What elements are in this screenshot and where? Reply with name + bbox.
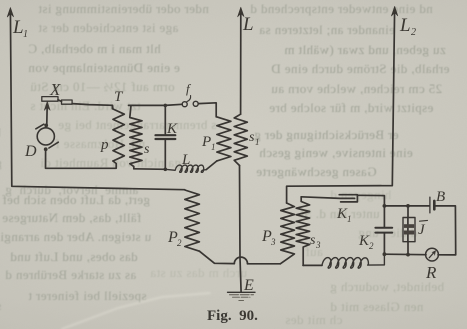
svg-text:2: 2 (177, 238, 182, 248)
detector J lead top (407, 206, 409, 218)
svg-text:E: E (243, 277, 254, 294)
node B junction dot (164, 168, 168, 172)
svg-text:J: J (418, 222, 426, 238)
label f descender tail (187, 96, 191, 102)
antenna L middle arrowhead (238, 7, 244, 17)
wire secondary bottom to node B (134, 168, 166, 171)
antenna lead L (middle) wire (240, 11, 242, 114)
detector J wire through tube (407, 218, 409, 242)
coupling coil (bottom right) (322, 254, 384, 268)
galvanometer R needle (429, 252, 434, 258)
arrow from dynamo to brush X (46, 105, 48, 125)
wire hop to P3 and S3 bottoms (248, 263, 281, 265)
detector J filings band lower (404, 231, 414, 235)
capacitor K2 plates (375, 227, 392, 229)
capacitor K1 outer plate bracket (339, 195, 357, 202)
paper crease bottom-left (62, 293, 210, 329)
wire X bars link (58, 100, 62, 102)
wire dynamo bottom to transformer primary (46, 150, 117, 168)
wire X to transformer (72, 104, 112, 109)
svg-text:1: 1 (211, 142, 216, 152)
battery B short plate (433, 201, 436, 209)
transformer T primary winding p (112, 105, 124, 161)
antenna L1 arrowhead (7, 8, 13, 18)
faint marks at left edge (0, 125, 1, 141)
node F junction dot (J bottom) (406, 253, 410, 257)
switch F contact circles (182, 102, 187, 107)
svg-text:p: p (100, 137, 109, 153)
resistor P1 (217, 117, 231, 161)
antenna lead L1 wire (10, 11, 184, 190)
dynamo D circle (37, 128, 54, 145)
detector J lead bottom (407, 242, 409, 255)
wire S3 top to capacitor K1 (301, 197, 354, 199)
svg-text:L: L (181, 152, 190, 168)
capacitor K2 lead top (383, 206, 385, 227)
svg-text:3: 3 (270, 237, 276, 247)
svg-text:L: L (12, 17, 24, 38)
svg-text:R: R (425, 263, 437, 282)
wire hop over earth lead (234, 257, 247, 264)
inductor L coil (165, 165, 206, 172)
svg-text:L: L (242, 14, 254, 35)
wire node C to node D (384, 205, 429, 207)
resistor S1 (234, 114, 247, 165)
svg-text:1: 1 (23, 29, 28, 40)
svg-text:f: f (186, 81, 192, 96)
transformer T secondary winding s (130, 105, 142, 168)
wire switch F to P1 (198, 103, 216, 117)
dynamo terminal dot bottom (44, 147, 48, 151)
node D junction dot (406, 204, 410, 208)
capacitor K lead bottom (164, 140, 166, 169)
svg-text:3: 3 (315, 240, 321, 250)
wire S3 bottom to coil (303, 264, 322, 266)
brush contact X left bar (42, 97, 58, 102)
earth symbol E (228, 291, 256, 293)
wire bottom return to K2/J (384, 253, 426, 256)
battery B long plate (429, 197, 431, 213)
svg-text:P: P (201, 134, 211, 150)
svg-text:2: 2 (369, 241, 374, 251)
wire battery to right edge (434, 206, 455, 255)
wire secondary top to node A (129, 104, 183, 105)
wire P2 bottom to hop (199, 251, 234, 263)
capacitor K2 lead bottom (383, 234, 385, 255)
node A junction dot (164, 104, 168, 108)
resistor P2 (185, 190, 200, 251)
svg-text:1: 1 (347, 214, 352, 224)
svg-text:s: s (144, 142, 150, 157)
wire K1 to node C (357, 195, 384, 206)
dynamo terminal dot top (44, 124, 48, 128)
capacitor K plates (156, 134, 176, 136)
dynamo brush stroke upper-left (36, 124, 44, 129)
detector J filings band upper (404, 224, 414, 228)
dynamo brush stroke lower-right (49, 142, 58, 148)
svg-text:1: 1 (255, 137, 260, 147)
svg-text:B: B (436, 189, 445, 205)
node C junction dot (383, 204, 387, 208)
svg-text:L: L (399, 15, 411, 36)
galvanometer R circle (426, 248, 439, 261)
resistor S3 (296, 197, 309, 266)
svg-text:K: K (166, 121, 178, 137)
resistor P3 (280, 203, 294, 264)
wire P1 bottom to coil L (206, 161, 217, 170)
figure caption (207, 308, 287, 325)
svg-text:2: 2 (411, 27, 416, 38)
svg-text:D: D (24, 143, 37, 160)
wire S1 bottom to earth (vertical) (240, 166, 242, 293)
antenna L2 arrowhead (391, 6, 397, 16)
svg-text:X: X (49, 80, 61, 99)
node E junction dot (K2 bottom) (383, 252, 387, 256)
detector J tube body (403, 218, 415, 242)
brush contact X right bar (62, 100, 73, 104)
svg-text:T: T (114, 89, 124, 105)
bleed-through text from reverse page (38, 1, 209, 17)
antenna lead L2 wire (287, 10, 395, 203)
capacitor K lead top (164, 105, 166, 133)
